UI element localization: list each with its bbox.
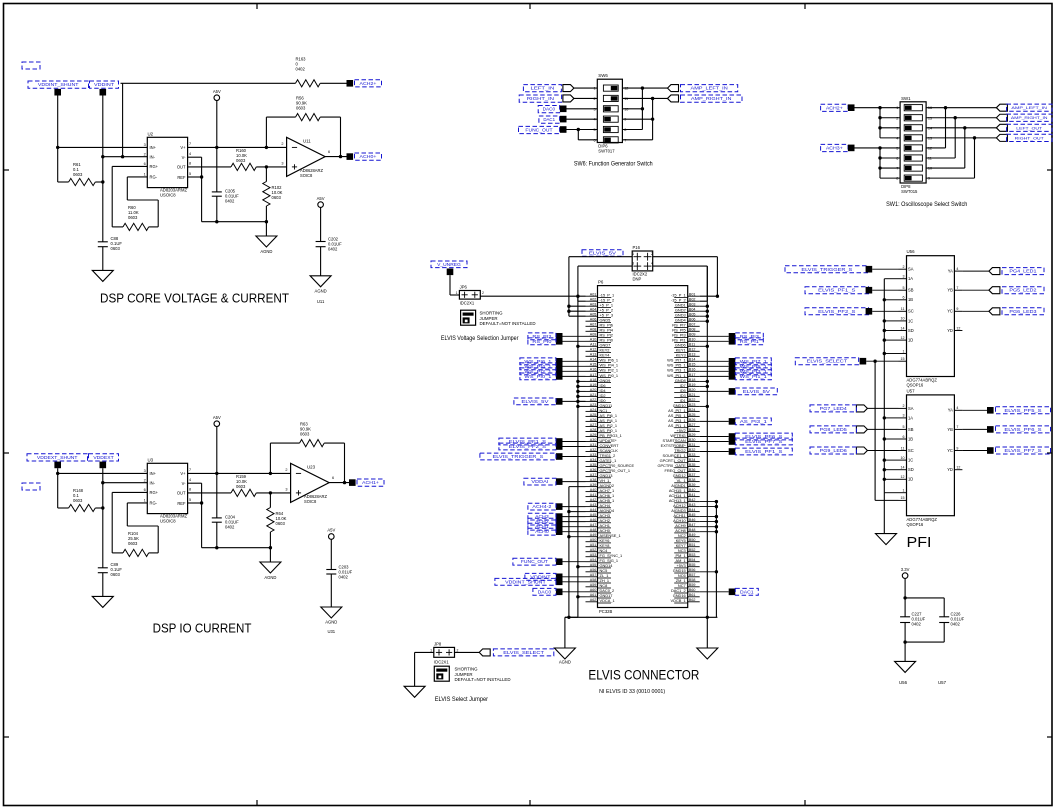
svg-text:0402: 0402 bbox=[225, 199, 235, 204]
svg-text:B41: B41 bbox=[689, 493, 696, 497]
net label PG7_LED4 to U57 bbox=[810, 405, 899, 412]
svg-text:YA: YA bbox=[948, 269, 953, 274]
svg-text:JP6: JP6 bbox=[460, 285, 468, 290]
ground below C89 bbox=[92, 596, 113, 607]
svg-text:6: 6 bbox=[328, 150, 330, 154]
svg-text:7: 7 bbox=[956, 425, 958, 429]
svg-text:B32: B32 bbox=[689, 448, 696, 452]
net label ACH1+ bbox=[357, 479, 384, 486]
svg-text:ACH3+: ACH3+ bbox=[826, 146, 844, 151]
svg-text:SHORTING: SHORTING bbox=[455, 667, 479, 672]
net label ELVIS_TRIGGER_S with port bbox=[480, 453, 586, 460]
port ACH2+ bbox=[347, 80, 354, 87]
port AMP_RIGHT_IN arrow bbox=[996, 114, 1007, 121]
wire OUT row 2 bbox=[188, 492, 231, 494]
svg-text:U56: U56 bbox=[899, 680, 908, 685]
svg-text:A01: A01 bbox=[590, 293, 597, 297]
svg-text:B55: B55 bbox=[689, 563, 696, 567]
svg-text:B36: B36 bbox=[689, 468, 696, 472]
svg-text:A60: A60 bbox=[590, 588, 597, 592]
wire V+ row bbox=[188, 146, 287, 149]
net label ELVIS_PF5_S from U57 bbox=[962, 407, 1050, 414]
svg-text:12: 12 bbox=[956, 326, 960, 330]
net label WS_PI2_1 with port bbox=[520, 368, 586, 375]
svg-text:IDC2X1: IDC2X1 bbox=[460, 301, 475, 306]
svg-text:3: 3 bbox=[632, 262, 634, 266]
note U57 bbox=[938, 680, 947, 685]
svg-text:IN+: IN+ bbox=[150, 471, 157, 476]
net label VDDEXT_SHUNT bbox=[27, 454, 88, 461]
svg-text:B35: B35 bbox=[689, 463, 696, 467]
DIP switch SW1 bbox=[896, 96, 932, 194]
svg-text:11: 11 bbox=[901, 307, 905, 311]
svg-text:V_UNREG: V_UNREG bbox=[437, 262, 461, 267]
svg-text:YD: YD bbox=[947, 467, 953, 472]
port RIGHT_OUT arrow bbox=[996, 134, 1007, 141]
svg-text:ELVIS_PF5_S: ELVIS_PF5_S bbox=[1004, 408, 1041, 413]
ground AGND PFI bbox=[876, 534, 897, 545]
svg-text:4: 4 bbox=[189, 152, 191, 156]
svg-text:ELVIS CONNECTOR: ELVIS CONNECTOR bbox=[588, 668, 699, 683]
svg-text:1D: 1D bbox=[908, 477, 913, 482]
wire P16 pin4 loop right inner bbox=[653, 266, 708, 301]
svg-text:B15: B15 bbox=[689, 363, 696, 367]
svg-text:A42: A42 bbox=[590, 498, 597, 502]
wire JP6 to P6 A01 bbox=[480, 295, 585, 297]
svg-text:USOIC8: USOIC8 bbox=[160, 519, 176, 524]
svg-text:A33: A33 bbox=[590, 453, 597, 457]
svg-text:ELVIS_PF7_S: ELVIS_PF7_S bbox=[745, 439, 782, 444]
svg-text:7: 7 bbox=[956, 286, 958, 290]
svg-text:JUMPER: JUMPER bbox=[455, 672, 473, 677]
wire V+ row 2 bbox=[188, 472, 291, 475]
svg-text:A5V: A5V bbox=[213, 415, 221, 420]
svg-text:PFI: PFI bbox=[907, 534, 932, 551]
svg-text:RIGHT_OUT: RIGHT_OUT bbox=[1015, 135, 1045, 140]
net label VDDINT_SHUNT bbox=[28, 81, 89, 88]
svg-text:3: 3 bbox=[903, 275, 905, 279]
analog switch U56 bbox=[899, 249, 963, 388]
svg-text:A08: A08 bbox=[590, 328, 597, 332]
svg-text:AMP_RIGHT_IN: AMP_RIGHT_IN bbox=[1011, 115, 1048, 120]
net label WS_PI3_1 with port bbox=[700, 368, 772, 375]
svg-text:1B: 1B bbox=[908, 297, 913, 302]
resistor R60 gain bbox=[112, 166, 158, 230]
svg-text:RS_PI1: RS_PI1 bbox=[740, 339, 760, 344]
svg-text:A30: A30 bbox=[590, 438, 597, 442]
port ACH0+ bbox=[347, 153, 354, 160]
net label AMP_RIGHT_IN bbox=[1007, 114, 1053, 121]
port ACH2+ input bbox=[848, 104, 855, 111]
svg-text:B24: B24 bbox=[689, 408, 696, 412]
svg-text:6: 6 bbox=[903, 296, 905, 300]
wire bottom rail to AGND bbox=[202, 220, 268, 236]
wire U56 select bus bbox=[883, 279, 899, 493]
wire OUT row bbox=[188, 166, 231, 168]
svg-text:JUMPER: JUMPER bbox=[480, 316, 498, 321]
svg-text:B37: B37 bbox=[689, 473, 696, 477]
svg-text:A23: A23 bbox=[590, 403, 597, 407]
svg-text:ELVIS_SELECT: ELVIS_SELECT bbox=[807, 359, 848, 364]
jumper JP8 bbox=[430, 641, 458, 664]
svg-text:YC: YC bbox=[947, 448, 953, 453]
net label RS_PI3 with port bbox=[700, 333, 764, 340]
svg-text:2: 2 bbox=[285, 468, 287, 472]
svg-text:YA: YA bbox=[948, 408, 953, 413]
svg-text:B34: B34 bbox=[689, 458, 696, 462]
caption SW6 Function Generator Switch bbox=[574, 160, 653, 167]
svg-text:B39: B39 bbox=[689, 483, 696, 487]
svg-text:1: 1 bbox=[456, 291, 458, 295]
svg-text:0603: 0603 bbox=[73, 498, 83, 503]
svg-text:0402: 0402 bbox=[912, 622, 922, 627]
svg-text:B46: B46 bbox=[689, 518, 696, 522]
svg-text:ACH2+: ACH2+ bbox=[360, 81, 378, 86]
net label V_UNREG bbox=[431, 261, 467, 268]
P6 pin stubs and numbers A-side bbox=[586, 293, 612, 603]
svg-text:DAC1: DAC1 bbox=[543, 117, 555, 122]
net label DAC1 bbox=[539, 116, 560, 123]
svg-text:PG6_LED3: PG6_LED3 bbox=[1009, 309, 1037, 314]
shorting jumper icon JP6 bbox=[461, 310, 476, 325]
svg-text:15: 15 bbox=[901, 496, 905, 500]
svg-text:IN-: IN- bbox=[150, 154, 156, 159]
capacitor C205 bbox=[212, 147, 239, 221]
capacitor C88 bbox=[98, 182, 123, 270]
net label PG8_LED5 to U57 bbox=[810, 426, 899, 433]
net label ELVIS_PF2_S to U56 bbox=[805, 308, 899, 315]
svg-text:2: 2 bbox=[482, 291, 484, 295]
svg-text:SW1: SW1 bbox=[901, 96, 911, 101]
net label WS_PI0_1 with port bbox=[520, 373, 586, 380]
P6 pin names A-side bbox=[600, 293, 635, 604]
svg-text:DAC0: DAC0 bbox=[543, 107, 556, 112]
connector P16 bbox=[632, 245, 653, 282]
svg-text:JP8: JP8 bbox=[434, 641, 442, 646]
svg-text:6: 6 bbox=[332, 476, 334, 480]
svg-text:U56: U56 bbox=[907, 249, 916, 254]
port VDDINT bbox=[100, 89, 107, 96]
svg-text:B14: B14 bbox=[689, 358, 696, 362]
svg-text:A34: A34 bbox=[590, 458, 597, 462]
ground AGND left of P6 bbox=[554, 648, 575, 665]
svg-text:SW6: Function Generator Switch: SW6: Function Generator Switch bbox=[574, 160, 653, 167]
svg-text:A59: A59 bbox=[590, 583, 597, 587]
svg-text:0603: 0603 bbox=[128, 215, 138, 220]
port ELVIS_SELECT arrow bbox=[479, 649, 490, 656]
svg-text:A03: A03 bbox=[590, 303, 597, 307]
svg-text:2: 2 bbox=[903, 265, 905, 269]
svg-text:ELVIS_PF7_S: ELVIS_PF7_S bbox=[1004, 448, 1041, 453]
svg-text:ACH4-2: ACH4-2 bbox=[532, 504, 552, 509]
op-amp input chip U3 bbox=[144, 457, 191, 523]
svg-text:B20: B20 bbox=[689, 388, 696, 392]
wire right outer bus bbox=[700, 266, 709, 617]
svg-text:A52: A52 bbox=[590, 548, 597, 552]
svg-text:B47: B47 bbox=[689, 523, 696, 527]
wire U11 output bbox=[325, 155, 346, 158]
capacitor C204 bbox=[212, 473, 239, 547]
svg-text:IDC2X1: IDC2X1 bbox=[434, 659, 449, 664]
svg-text:A40: A40 bbox=[590, 488, 597, 492]
svg-text:B04: B04 bbox=[689, 308, 696, 312]
wire ELVIS_SELECT to U56 U57 pin15 bbox=[866, 360, 898, 501]
net label ACH0+ bbox=[355, 153, 382, 160]
svg-text:YB: YB bbox=[947, 427, 953, 432]
svg-text:FUNC_OUT: FUNC_OUT bbox=[525, 128, 553, 133]
svg-text:7: 7 bbox=[189, 468, 191, 472]
svg-text:B57: B57 bbox=[689, 573, 696, 577]
svg-text:B54: B54 bbox=[689, 558, 696, 562]
port LEFT_OUT arrow bbox=[996, 124, 1007, 131]
svg-text:LEFT_IN: LEFT_IN bbox=[531, 86, 555, 91]
capacitor C203 bbox=[326, 565, 352, 608]
note shorting jumper JP8 bbox=[455, 667, 511, 683]
svg-text:6: 6 bbox=[144, 488, 146, 492]
svg-text:1: 1 bbox=[903, 489, 905, 493]
power A5V at U23 bypass bbox=[327, 528, 335, 570]
svg-text:2: 2 bbox=[651, 252, 653, 256]
svg-text:A20: A20 bbox=[590, 388, 597, 392]
port DAC1 bbox=[560, 116, 567, 123]
wire SW6 outputs to AMP_LEFT_IN bbox=[622, 86, 667, 129]
svg-text:4: 4 bbox=[189, 478, 191, 482]
svg-text:0603: 0603 bbox=[111, 572, 121, 577]
svg-text:DSP IO CURRENT: DSP IO CURRENT bbox=[153, 621, 252, 636]
svg-text:B29: B29 bbox=[689, 433, 696, 437]
svg-text:A55: A55 bbox=[590, 563, 597, 567]
power A5V at U11 bypass bbox=[317, 196, 325, 242]
caption ELVIS Voltage Selection Jumper bbox=[441, 336, 519, 342]
wire P16 pin2 loop right bbox=[653, 257, 719, 298]
svg-text:OUT: OUT bbox=[177, 165, 186, 170]
svg-text:1: 1 bbox=[903, 349, 905, 353]
svg-text:YC: YC bbox=[947, 309, 953, 314]
svg-text:A07: A07 bbox=[590, 323, 597, 327]
net label ELVIS_5V right with port bbox=[700, 388, 778, 395]
svg-text:A25: A25 bbox=[590, 413, 597, 417]
net label AMP_LEFT_IN bbox=[1007, 104, 1053, 111]
svg-text:YD: YD bbox=[947, 328, 953, 333]
svg-text:A13: A13 bbox=[590, 353, 597, 357]
svg-text:12: 12 bbox=[901, 475, 905, 479]
svg-text:3: 3 bbox=[281, 162, 283, 166]
svg-text:A12: A12 bbox=[590, 348, 597, 352]
wire VDDINT vertical bbox=[101, 96, 104, 184]
ground AGND bypass caps bbox=[895, 661, 916, 672]
net label WS_PI4_1 with port bbox=[520, 363, 586, 370]
svg-text:SWT015: SWT015 bbox=[901, 189, 918, 194]
svg-text:B02: B02 bbox=[689, 298, 696, 302]
svg-text:4: 4 bbox=[651, 262, 653, 266]
wire V- to REF rail bbox=[188, 157, 204, 222]
net label PG6_LED3 from U56 bbox=[962, 308, 1044, 315]
net label RIGHT_IN bbox=[519, 95, 561, 102]
wire bottom rail 2 to AGND bbox=[202, 546, 272, 562]
wire RIGHT_IN to SW6 pin2 bbox=[574, 97, 597, 99]
svg-text:B56: B56 bbox=[689, 568, 696, 572]
net label VDDINT with port bbox=[525, 573, 586, 580]
svg-text:ELVIS_SELECT: ELVIS_SELECT bbox=[503, 650, 544, 655]
net label RS_PI1 with port bbox=[700, 338, 764, 345]
svg-text:A29: A29 bbox=[590, 433, 597, 437]
port LEFT_IN arrow bbox=[563, 85, 574, 92]
svg-text:PG9_LED6: PG9_LED6 bbox=[820, 448, 848, 453]
op-amp input chip U2 bbox=[144, 131, 191, 197]
caption SW1 Oscilloscope Select Switch bbox=[886, 201, 968, 208]
svg-text:RG-: RG- bbox=[150, 500, 158, 505]
svg-text:AGND: AGND bbox=[260, 249, 272, 254]
svg-text:3: 3 bbox=[144, 143, 146, 147]
wire left inner bus bbox=[567, 487, 585, 618]
svg-text:0603: 0603 bbox=[111, 246, 121, 251]
svg-text:A44: A44 bbox=[590, 508, 597, 512]
svg-text:B17: B17 bbox=[689, 373, 696, 377]
svg-text:B62: B62 bbox=[689, 598, 696, 602]
net label PG9_LED6 to U57 bbox=[810, 447, 899, 454]
svg-text:2: 2 bbox=[144, 478, 146, 482]
svg-text:0603: 0603 bbox=[300, 432, 310, 437]
wire VDDEXT vertical bbox=[101, 468, 104, 509]
net label PG4_LED1 from U56 bbox=[962, 268, 1044, 275]
svg-text:SOIC8: SOIC8 bbox=[304, 499, 317, 504]
net label ELVIS_5V bbox=[582, 250, 623, 257]
svg-text:ELVIS_TRIGGER_S: ELVIS_TRIGGER_S bbox=[493, 454, 544, 459]
svg-text:SB: SB bbox=[908, 288, 914, 293]
port VDDINT_SHUNT bbox=[54, 89, 61, 96]
svg-text:2: 2 bbox=[144, 152, 146, 156]
note U56 bbox=[899, 680, 908, 685]
svg-text:6: 6 bbox=[903, 435, 905, 439]
svg-text:AMP_RIGHT_IN: AMP_RIGHT_IN bbox=[691, 96, 732, 101]
port ACH3+ input bbox=[848, 145, 855, 152]
svg-text:P16: P16 bbox=[633, 245, 641, 250]
svg-text:RG+: RG+ bbox=[150, 164, 159, 169]
svg-text:ELVIS_PF6_S: ELVIS_PF6_S bbox=[1004, 427, 1041, 432]
net label ACH1 with port bbox=[528, 523, 586, 530]
svg-text:B08: B08 bbox=[689, 328, 696, 332]
capacitor C202 bbox=[316, 237, 343, 276]
svg-text:15: 15 bbox=[901, 357, 905, 361]
svg-text:DAC1: DAC1 bbox=[740, 589, 754, 594]
svg-text:B48: B48 bbox=[689, 528, 696, 532]
wire U23 output bbox=[329, 481, 349, 484]
net label ACH3+ input bbox=[821, 144, 848, 151]
port ACH1+ bbox=[349, 479, 356, 486]
note shorting jumper JP6 bbox=[480, 311, 536, 327]
svg-text:B53: B53 bbox=[689, 553, 696, 557]
svg-text:B51: B51 bbox=[689, 543, 696, 547]
svg-text:B25: B25 bbox=[689, 413, 696, 417]
svg-text:ACH2+: ACH2+ bbox=[826, 105, 844, 110]
svg-text:B28: B28 bbox=[689, 428, 696, 432]
svg-text:B19: B19 bbox=[689, 383, 696, 387]
wire IN+ row to U2 bbox=[56, 146, 147, 149]
svg-text:PC32B: PC32B bbox=[599, 609, 612, 614]
svg-text:B07: B07 bbox=[689, 323, 696, 327]
port FUNC_OUT bbox=[560, 126, 567, 133]
svg-text:2: 2 bbox=[281, 142, 283, 146]
wire right AGND drop bbox=[706, 617, 708, 648]
net label ACH0 with port bbox=[528, 528, 586, 535]
wire left AGND drop bbox=[565, 617, 578, 648]
title PFI bbox=[907, 534, 932, 551]
svg-text:A16: A16 bbox=[590, 368, 597, 372]
svg-text:B58: B58 bbox=[689, 578, 696, 582]
svg-text:B33: B33 bbox=[689, 453, 696, 457]
svg-text:A47: A47 bbox=[590, 523, 597, 527]
svg-text:0603: 0603 bbox=[236, 484, 246, 489]
svg-text:VDDINT_SHUNT: VDDINT_SHUNT bbox=[38, 82, 79, 87]
svg-text:AS_PI3_1: AS_PI3_1 bbox=[740, 419, 768, 424]
net label FUNC_OUT with port bbox=[513, 558, 586, 565]
svg-text:B16: B16 bbox=[689, 368, 696, 372]
wire SW1 rows to output ports bbox=[926, 106, 996, 178]
svg-text:ACH0: ACH0 bbox=[535, 529, 549, 534]
ground below C88 bbox=[92, 270, 113, 281]
svg-text:A15: A15 bbox=[590, 363, 597, 367]
port DAC0 bbox=[560, 106, 567, 113]
svg-text:3: 3 bbox=[144, 469, 146, 473]
svg-text:A09: A09 bbox=[590, 333, 597, 337]
ground AGND below R102 bbox=[256, 236, 277, 254]
resistor R64 bbox=[267, 493, 287, 548]
svg-text:V+: V+ bbox=[180, 145, 186, 150]
net label ELVIS_PF1_S to U56 bbox=[805, 287, 899, 294]
svg-text:B12: B12 bbox=[689, 348, 696, 352]
wire PFI bus to ground bbox=[883, 493, 885, 534]
svg-text:SA: SA bbox=[908, 406, 914, 411]
wire R163 to port bbox=[320, 82, 346, 84]
svg-text:YB: YB bbox=[947, 288, 953, 293]
op-amp U11 bbox=[281, 137, 330, 178]
capacitor C227 bbox=[900, 612, 926, 662]
svg-text:B52: B52 bbox=[689, 548, 696, 552]
capacitor C89 bbox=[98, 508, 123, 596]
net label AMP_LEFT_IN bbox=[681, 85, 738, 92]
resistor R56 feedback bbox=[266, 96, 340, 156]
svg-text:IN-: IN- bbox=[150, 480, 156, 485]
wire VDDINT top net to R163 bbox=[121, 83, 296, 156]
svg-text:A02: A02 bbox=[590, 298, 597, 302]
wire P16 pin3 loop left inner bbox=[576, 266, 632, 301]
svg-text:USOIC8: USOIC8 bbox=[160, 193, 176, 198]
svg-text:1: 1 bbox=[144, 498, 146, 502]
port RIGHT_IN arrow bbox=[563, 95, 574, 102]
net label RS_PI2 with port bbox=[528, 333, 586, 340]
svg-text:REF: REF bbox=[177, 175, 186, 180]
svg-text:DNP: DNP bbox=[633, 277, 642, 282]
power 3.3V bbox=[901, 567, 910, 617]
wire R159 to op-amp + bbox=[256, 491, 290, 494]
svg-text:3: 3 bbox=[903, 414, 905, 418]
net label RS_PI0 with port bbox=[528, 338, 586, 345]
wire R160 to op-amp + bbox=[256, 165, 286, 168]
shorting jumper icon JP8 bbox=[434, 666, 449, 681]
svg-text:A62: A62 bbox=[590, 598, 597, 602]
svg-text:RS_PI0: RS_PI0 bbox=[532, 339, 552, 344]
svg-text:B45: B45 bbox=[689, 513, 696, 517]
resistor R63 feedback bbox=[270, 422, 344, 482]
svg-text:1: 1 bbox=[144, 172, 146, 176]
P6 pin stubs and numbers B-side bbox=[674, 293, 700, 603]
svg-text:A19: A19 bbox=[590, 383, 597, 387]
svg-text:4: 4 bbox=[956, 406, 958, 410]
svg-text:0402: 0402 bbox=[328, 247, 338, 252]
svg-text:SWT017: SWT017 bbox=[598, 149, 615, 154]
svg-text:A26: A26 bbox=[590, 418, 597, 422]
svg-text:SB: SB bbox=[908, 427, 914, 432]
